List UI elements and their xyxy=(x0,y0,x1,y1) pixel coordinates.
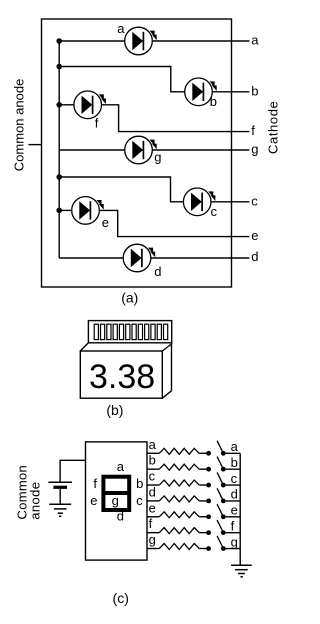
label connector stub xyxy=(28,144,41,146)
svg-text:g: g xyxy=(112,493,119,508)
LED g xyxy=(125,136,157,164)
svg-text:d: d xyxy=(231,487,238,502)
svg-text:e: e xyxy=(149,500,156,515)
switch Sg xyxy=(206,546,211,551)
resistor Ra xyxy=(159,448,199,454)
LED e xyxy=(72,197,104,225)
svg-text:f: f xyxy=(251,123,255,138)
wire segment a xyxy=(147,452,159,454)
svg-text:Cathode: Cathode xyxy=(266,101,281,154)
svg-text:g: g xyxy=(231,534,238,549)
node f junction xyxy=(56,102,62,108)
battery V1 xyxy=(48,481,72,483)
LED d xyxy=(123,244,155,272)
svg-text:b: b xyxy=(231,455,238,470)
LED a xyxy=(125,27,157,55)
pin 3 xyxy=(107,324,111,339)
wire segment d xyxy=(147,500,159,502)
pin 2 xyxy=(101,324,105,339)
svg-text:d: d xyxy=(251,249,258,264)
pin 5 xyxy=(119,324,123,339)
switch Sa xyxy=(206,451,211,456)
wire d xyxy=(59,257,123,259)
svg-text:e: e xyxy=(102,215,109,230)
display package (c) xyxy=(86,442,148,560)
anode supply wire xyxy=(60,460,85,482)
svg-text:b: b xyxy=(251,83,258,98)
resistor Rb xyxy=(159,464,199,470)
node c junction xyxy=(56,174,62,180)
svg-text:c: c xyxy=(251,193,258,208)
svg-text:g: g xyxy=(251,142,258,157)
wire to bus e xyxy=(223,516,240,518)
svg-text:d: d xyxy=(149,484,156,499)
resistor Re xyxy=(159,512,199,518)
7-segment glyph xyxy=(103,477,129,510)
switch Se xyxy=(206,514,211,519)
wire to bus c xyxy=(223,484,240,486)
svg-text:f: f xyxy=(95,115,99,130)
switch Sd xyxy=(206,499,211,504)
wire e xyxy=(59,209,71,211)
wire to bus b xyxy=(223,468,240,470)
svg-text:(b): (b) xyxy=(106,402,123,418)
svg-text:Common anode: Common anode xyxy=(12,79,27,172)
pin 12 xyxy=(164,324,168,339)
module front face xyxy=(80,351,162,398)
wire b xyxy=(59,67,185,92)
svg-text:c: c xyxy=(136,493,143,508)
wire to bus g xyxy=(223,548,240,550)
part (a) outer box xyxy=(42,19,232,287)
LED c xyxy=(183,188,215,216)
svg-text:c: c xyxy=(149,469,156,484)
svg-text:g: g xyxy=(149,532,156,547)
wire a xyxy=(59,40,125,42)
wire segment e xyxy=(147,516,159,518)
svg-text:a: a xyxy=(251,33,259,48)
wire to bus a xyxy=(223,452,240,454)
svg-text:e: e xyxy=(90,493,97,508)
resistor Rc xyxy=(159,480,199,486)
LED f xyxy=(74,91,106,119)
svg-text:g: g xyxy=(154,149,161,164)
node a junction xyxy=(56,38,62,44)
wire segment b xyxy=(147,468,159,470)
svg-text:b: b xyxy=(210,94,217,109)
module top-right edge xyxy=(162,344,171,351)
svg-text:e: e xyxy=(251,228,258,243)
svg-text:a: a xyxy=(117,21,125,36)
cathode bus xyxy=(239,453,241,565)
pin 4 xyxy=(113,324,117,339)
module bottom-right edge xyxy=(162,391,171,398)
svg-text:c: c xyxy=(231,471,238,486)
ground (battery) xyxy=(49,503,71,505)
pin 6 xyxy=(126,324,130,339)
switch Sf xyxy=(206,530,211,535)
pin 9 xyxy=(145,324,149,339)
svg-text:f: f xyxy=(93,476,97,491)
svg-text:b: b xyxy=(149,453,156,468)
svg-text:(a): (a) xyxy=(121,289,138,305)
wire f xyxy=(59,104,74,106)
svg-text:anode: anode xyxy=(28,482,43,520)
svg-text:3.38: 3.38 xyxy=(89,358,155,396)
wire g xyxy=(59,149,125,151)
wire segment g xyxy=(147,548,159,550)
svg-text:(c): (c) xyxy=(113,590,129,606)
wire segment c xyxy=(147,484,159,486)
node b junction xyxy=(56,64,62,70)
pin 1 xyxy=(94,324,98,339)
module top-left edge xyxy=(80,343,88,351)
wire segment f xyxy=(147,532,159,534)
svg-text:d: d xyxy=(117,508,124,523)
svg-text:d: d xyxy=(154,264,161,279)
svg-text:a: a xyxy=(117,459,125,474)
switch Sb xyxy=(206,467,211,472)
pin 10 xyxy=(151,324,155,339)
module back-right edge xyxy=(171,343,173,391)
resistor Rg xyxy=(159,544,199,550)
svg-text:b: b xyxy=(136,476,143,491)
connector strip xyxy=(88,321,171,343)
ground (bus) xyxy=(231,564,252,566)
pin 7 xyxy=(132,324,136,339)
resistor Rf xyxy=(159,528,199,534)
switch Sc xyxy=(206,483,211,488)
wire to bus f xyxy=(223,532,240,534)
node e junction xyxy=(56,208,62,214)
svg-text:a: a xyxy=(231,439,239,454)
wire c xyxy=(59,177,183,202)
svg-text:f: f xyxy=(149,516,153,531)
svg-text:c: c xyxy=(211,204,218,219)
svg-text:e: e xyxy=(231,503,238,518)
anode bus wire xyxy=(58,41,60,258)
pin 8 xyxy=(138,324,142,339)
LED b xyxy=(185,78,217,106)
pin 11 xyxy=(157,324,161,339)
wire to bus d xyxy=(223,500,240,502)
svg-text:f: f xyxy=(231,518,235,533)
svg-text:a: a xyxy=(149,437,157,452)
resistor Rd xyxy=(159,496,199,502)
